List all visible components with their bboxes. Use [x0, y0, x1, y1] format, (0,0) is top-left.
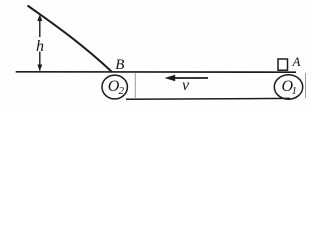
pulley O2 circle: [102, 75, 127, 99]
label O2 subscript 2: [119, 86, 125, 97]
label O1 subscript 1: [292, 86, 298, 97]
belt end vertical left: [134, 73, 136, 98]
label O2: [108, 79, 120, 95]
h arrow (double-headed vertical): [37, 14, 42, 71]
belt bottom line: [126, 97, 290, 100]
label O1: [282, 79, 294, 95]
ground / belt top line: [16, 71, 296, 73]
incline line: [28, 6, 113, 73]
block A on belt: [278, 59, 288, 70]
label v: [182, 78, 189, 94]
label A: [293, 55, 301, 68]
label h: [36, 39, 44, 55]
belt velocity arrow v: [165, 75, 209, 82]
label B: [115, 58, 124, 73]
belt end vertical right: [305, 73, 307, 98]
pulley O1 circle: [274, 75, 302, 99]
